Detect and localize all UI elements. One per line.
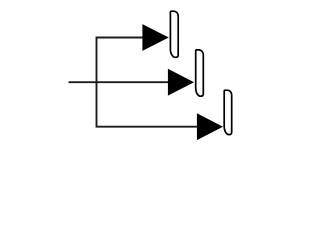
wire: bottom branch from junction down and right: [97, 81, 199, 127]
capsule element E1 (top): [170, 11, 178, 57]
capsule element E3 (bottom): [224, 90, 232, 134]
wire: input net from left to middle branch: [69, 81, 171, 83]
triangle arrow A1 (top): [142, 24, 168, 51]
capsule element E2 (middle): [196, 50, 204, 96]
triangle arrow A3 (bottom): [197, 113, 223, 140]
wire: top branch with corner down to junction: [97, 38, 145, 84]
triangle arrow A2 (middle): [168, 69, 194, 96]
